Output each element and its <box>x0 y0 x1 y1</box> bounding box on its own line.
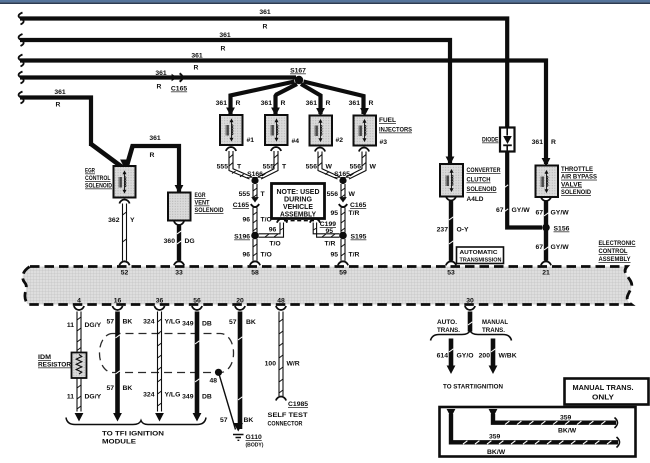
svg-text:IDM: IDM <box>38 354 51 361</box>
svg-text:4: 4 <box>77 298 81 305</box>
IDM resistor box <box>72 353 87 379</box>
svg-text:GY/O: GY/O <box>457 353 474 360</box>
wire 556-W injector2 to S165 <box>318 152 340 180</box>
svg-text:361: 361 <box>261 100 273 107</box>
svg-text:361: 361 <box>219 32 231 39</box>
svg-text:349: 349 <box>182 321 194 328</box>
svg-text:G110: G110 <box>246 434 262 441</box>
svg-text:R: R <box>326 100 331 107</box>
svg-text:S167: S167 <box>290 68 306 75</box>
svg-text:O-Y: O-Y <box>457 227 470 234</box>
svg-text:ONLY: ONLY <box>592 393 614 402</box>
wire 237-O/Y to bus pin 53 <box>449 201 453 261</box>
svg-text:DG/Y: DG/Y <box>85 394 102 401</box>
svg-text:SOLENOID: SOLENOID <box>195 207 224 214</box>
wire 362-Y to bus pin 52 <box>123 204 127 261</box>
svg-text:95: 95 <box>330 210 338 217</box>
svg-text:TRANSMISSION: TRANSMISSION <box>460 258 502 264</box>
fuel injector #4 box <box>265 115 288 145</box>
wire 11-DG/Y pin4 to IDM resistor <box>77 312 81 353</box>
svg-text:556: 556 <box>350 164 362 171</box>
svg-text:AUTO.: AUTO. <box>437 319 457 326</box>
wire break left end 3 <box>19 55 24 67</box>
svg-text:SOLENOID: SOLENOID <box>85 183 112 190</box>
connector flare under injector 1 <box>226 147 236 151</box>
arrow into EGR vent solenoid <box>175 185 184 194</box>
svg-text:RESISTOR: RESISTOR <box>38 362 71 369</box>
svg-text:EGR: EGR <box>195 192 206 199</box>
connector C165 on wire4 <box>172 73 183 81</box>
wire 361-R top feed 2 (to converter clutch solenoid) <box>20 40 450 163</box>
arrow end pin16 wire <box>113 413 122 422</box>
break end 359 lower <box>617 437 620 448</box>
svg-text:556: 556 <box>306 164 318 171</box>
svg-text:48: 48 <box>209 378 217 385</box>
splice S196 <box>251 232 259 240</box>
svg-text:R: R <box>281 100 286 107</box>
svg-text:GY/W: GY/W <box>512 207 531 214</box>
wire 57-BK pin16 to TFI <box>115 312 120 414</box>
svg-text:(BODY): (BODY) <box>246 443 264 449</box>
wire 361-R top feed 3 (to throttle air bypass solenoid) <box>20 61 546 165</box>
pin 33 connector <box>174 261 184 265</box>
svg-text:349: 349 <box>182 394 194 401</box>
svg-text:R: R <box>194 65 199 72</box>
svg-text:INJECTORS: INJECTORS <box>379 127 412 134</box>
svg-text:359: 359 <box>489 434 501 441</box>
wire 67-GY/W diode to S156 <box>507 152 542 228</box>
wire 96-T/O C165 to S196 <box>253 208 257 233</box>
fan wire S167 to injector 3 <box>304 82 364 115</box>
pin 20 connector <box>235 306 245 310</box>
svg-text:MANUAL: MANUAL <box>482 319 508 326</box>
arrow into injector 2 <box>316 108 325 117</box>
svg-text:359: 359 <box>560 415 572 422</box>
svg-text:AUTOMATIC: AUTOMATIC <box>460 250 498 256</box>
svg-text:C165: C165 <box>350 202 366 209</box>
svg-text:W: W <box>349 191 356 198</box>
svg-text:CONVERTER: CONVERTER <box>467 167 501 174</box>
svg-text:VALVE: VALVE <box>561 181 582 188</box>
splice S166 <box>251 177 258 184</box>
arrow end pin56 wire <box>193 413 202 422</box>
svg-text:SOLENOID: SOLENOID <box>561 189 591 196</box>
splice S167 <box>295 76 303 84</box>
svg-text:R: R <box>221 46 226 53</box>
svg-text:A4LD: A4LD <box>467 196 484 203</box>
connector flare under converter clutch <box>446 197 456 201</box>
svg-text:96: 96 <box>242 217 250 224</box>
NOTE box <box>272 184 325 219</box>
svg-text:W: W <box>370 164 377 171</box>
wire 324-Y/LG pin36 to TFI <box>158 312 162 412</box>
svg-text:R: R <box>263 24 268 31</box>
svg-text:33: 33 <box>175 270 183 277</box>
svg-text:96: 96 <box>269 227 277 234</box>
pin 30 connector <box>465 306 475 310</box>
pin 56 connector <box>192 306 202 310</box>
wire 95-T/R C165 to S195 <box>341 208 345 233</box>
svg-text:96: 96 <box>242 252 250 259</box>
svg-text:DURING: DURING <box>284 197 313 204</box>
wire break left end 5 <box>19 92 24 104</box>
wire break left end 1 <box>19 13 24 25</box>
svg-text:CLUTCH: CLUTCH <box>467 177 491 184</box>
wire pin30 stub <box>468 312 473 332</box>
fan wire S167 to injector 4 <box>276 84 298 114</box>
svg-text:555: 555 <box>239 191 251 198</box>
svg-text:CONNECTOR: CONNECTOR <box>268 421 303 428</box>
svg-text:TRANS.: TRANS. <box>437 327 460 334</box>
svg-text:S165: S165 <box>334 171 350 178</box>
drain wire 48 to ground <box>219 372 236 429</box>
svg-text:361: 361 <box>54 89 66 96</box>
svg-text:BK: BK <box>123 319 133 326</box>
fuel injector #2 box <box>310 116 333 146</box>
wire 95-T/R S195 to bus pin 59 <box>341 239 345 261</box>
wire break left end 4 <box>19 72 24 84</box>
svg-text:C165: C165 <box>171 86 187 93</box>
arrow into injector 1 <box>226 108 235 117</box>
arrow into converter clutch solenoid <box>446 157 455 166</box>
wire 96-T/O S196 to bus pin 58 <box>253 239 257 261</box>
fan wire S167 to injector 2 <box>301 84 321 114</box>
svg-text:361: 361 <box>216 100 228 107</box>
svg-text:EGR: EGR <box>85 168 95 175</box>
svg-text:THROTTLE: THROTTLE <box>561 166 593 173</box>
TFI brace <box>66 418 206 425</box>
svg-text:361: 361 <box>259 9 271 16</box>
wire 556-W S165 to C165 right <box>341 184 345 200</box>
svg-text:DB: DB <box>202 321 212 328</box>
svg-text:52: 52 <box>121 270 129 277</box>
wire 556-W injector3 to S165 <box>346 152 366 180</box>
svg-text:CONTROL: CONTROL <box>85 175 111 182</box>
svg-text:W: W <box>326 164 333 171</box>
svg-text:67: 67 <box>496 207 504 214</box>
wire 11-DG/Y resistor to TFI <box>77 378 81 412</box>
splice S195 <box>339 232 347 240</box>
svg-text:59: 59 <box>339 270 347 277</box>
svg-text:361: 361 <box>149 135 161 142</box>
note box pin flare left <box>277 219 287 223</box>
svg-text:C1985: C1985 <box>288 401 308 408</box>
svg-text:R: R <box>369 100 374 107</box>
svg-text:T/R: T/R <box>349 210 360 217</box>
wire 361-R top feed 4 (to S167 injector feed) <box>20 75 296 79</box>
throttle air bypass valve solenoid box <box>536 166 559 198</box>
svg-text:11: 11 <box>67 394 74 401</box>
svg-text:614: 614 <box>437 353 449 360</box>
arrow into injector 3 <box>360 108 369 117</box>
svg-text:#2: #2 <box>336 137 344 144</box>
fan wire S167 to injector 1 <box>231 82 295 115</box>
pin 16 connector <box>112 306 122 310</box>
connector flare under EGR control solenoid <box>119 200 129 204</box>
svg-text:95: 95 <box>330 252 338 259</box>
arrow start 359 upper wire <box>489 409 498 418</box>
bus band dashed border <box>23 267 632 305</box>
svg-text:R: R <box>157 84 162 91</box>
fuel injector #3 box <box>354 116 377 146</box>
harness loop (stadium) <box>100 334 234 373</box>
svg-text:11: 11 <box>67 322 74 329</box>
svg-text:#1: #1 <box>247 137 255 144</box>
pin 36 connector <box>154 306 164 310</box>
svg-text:53: 53 <box>447 270 455 277</box>
svg-text:ELECTRONIC: ELECTRONIC <box>599 240 636 247</box>
svg-text:67: 67 <box>535 210 543 217</box>
svg-text:T/R: T/R <box>325 241 336 248</box>
wire 359-BK/W lower <box>451 414 618 442</box>
svg-text:TRANS.: TRANS. <box>482 327 505 334</box>
wire 96 branch S196 to note box pin <box>259 223 284 238</box>
arrow end pin4 wire <box>75 413 84 422</box>
svg-text:BK: BK <box>123 385 133 392</box>
svg-text:VENT: VENT <box>195 200 211 207</box>
pin 21 connector <box>541 261 551 265</box>
bus band fill <box>23 267 632 305</box>
pin 48 connector <box>276 306 286 310</box>
svg-text:Y/LG: Y/LG <box>165 319 181 326</box>
AUTOMATIC TRANSMISSION box <box>457 247 504 264</box>
svg-text:100: 100 <box>265 361 277 368</box>
EGR control solenoid box <box>114 166 136 198</box>
svg-text:237: 237 <box>437 227 449 234</box>
svg-text:BK/W: BK/W <box>558 428 577 435</box>
svg-text:361: 361 <box>306 100 318 107</box>
svg-text:#4: #4 <box>292 138 300 145</box>
break end 359 upper <box>615 418 618 429</box>
wire 361-R top feed 5 (to EGR solenoids) <box>20 98 91 147</box>
arrow into throttle air bypass solenoid <box>542 158 551 167</box>
svg-text:W/R: W/R <box>287 361 300 368</box>
pin 4 connector <box>74 306 84 310</box>
wire 360-DG to bus pin 33 <box>177 225 181 261</box>
svg-text:361: 361 <box>532 139 544 146</box>
wire 555-T injector1 to S166 <box>229 151 252 179</box>
svg-text:S156: S156 <box>554 226 570 233</box>
svg-text:58: 58 <box>251 270 259 277</box>
pin 58 connector <box>250 261 260 265</box>
wire 100-W/R pin48 to self test connector <box>279 312 283 397</box>
svg-text:361: 361 <box>155 70 167 77</box>
wire 57-BK pin20 to G110 <box>238 312 243 430</box>
wire 67-GY/W throttle to bus pin 21 <box>544 201 548 261</box>
svg-text:BK: BK <box>244 417 254 424</box>
svg-text:C165: C165 <box>233 202 249 209</box>
converter clutch solenoid box <box>440 164 463 197</box>
svg-text:555: 555 <box>217 164 229 171</box>
connector flare under throttle solenoid <box>541 197 551 201</box>
svg-text:R: R <box>56 102 61 109</box>
split brace under pin 30 <box>431 331 512 341</box>
svg-text:ASSEMBLY: ASSEMBLY <box>280 212 316 219</box>
MANUAL TRANS. ONLY label box <box>565 379 649 405</box>
svg-text:67: 67 <box>535 244 543 251</box>
svg-text:T/O: T/O <box>261 252 272 259</box>
svg-text:362: 362 <box>108 217 120 224</box>
browser top bar <box>0 0 650 2</box>
fuel injector #1 box <box>220 115 243 145</box>
svg-text:36: 36 <box>156 298 164 305</box>
svg-text:57: 57 <box>106 385 114 392</box>
svg-text:SOLENOID: SOLENOID <box>467 186 497 193</box>
arrow start 359 lower wire <box>447 409 456 418</box>
svg-text:556: 556 <box>327 191 339 198</box>
svg-text:16: 16 <box>114 298 122 305</box>
dashed line under note box <box>284 220 314 222</box>
svg-text:MODULE: MODULE <box>102 439 137 446</box>
wire break left end 2 <box>19 34 24 46</box>
svg-text:T/R: T/R <box>349 252 360 259</box>
self test connector end flare <box>276 397 286 401</box>
svg-text:21: 21 <box>542 270 550 277</box>
svg-text:48: 48 <box>277 298 285 305</box>
connector C165 left branch <box>251 197 259 207</box>
svg-text:ASSEMBLY: ASSEMBLY <box>599 256 631 263</box>
svg-text:SELF TEST: SELF TEST <box>268 412 309 419</box>
splice S156 <box>542 224 550 232</box>
svg-text:R: R <box>236 100 241 107</box>
wire 359-BK/W upper <box>493 414 616 423</box>
svg-text:57: 57 <box>220 417 228 424</box>
svg-text:TO START/IGNITION: TO START/IGNITION <box>443 384 503 391</box>
svg-text:S195: S195 <box>351 234 367 241</box>
wire 555-T injector4 to S166 <box>258 151 278 179</box>
svg-text:W/BK: W/BK <box>499 353 517 360</box>
svg-text:DG: DG <box>185 238 195 245</box>
svg-text:#3: #3 <box>380 139 388 146</box>
connector C165 right branch <box>339 197 347 207</box>
svg-text:GY/W: GY/W <box>551 210 570 217</box>
svg-text:361: 361 <box>191 53 203 60</box>
arrow into injector 4 <box>271 108 280 117</box>
arrow into EGR control solenoid <box>120 160 129 169</box>
svg-text:VEHICLE: VEHICLE <box>283 204 313 211</box>
manual trans only outline box <box>440 407 636 457</box>
svg-text:20: 20 <box>236 298 244 305</box>
svg-text:57: 57 <box>229 319 237 326</box>
svg-text:MANUAL TRANS.: MANUAL TRANS. <box>573 383 634 392</box>
svg-text:Y: Y <box>130 217 135 224</box>
svg-text:30: 30 <box>466 298 474 305</box>
wire 614-GY/O auto trans arrow <box>449 339 454 367</box>
svg-text:324: 324 <box>143 319 155 326</box>
svg-text:NOTE: USED: NOTE: USED <box>277 189 320 196</box>
svg-text:200: 200 <box>479 353 491 360</box>
svg-text:BK: BK <box>246 319 256 326</box>
svg-text:DB: DB <box>202 394 212 401</box>
svg-text:TO TFI IGNITION: TO TFI IGNITION <box>102 431 164 438</box>
svg-text:361: 361 <box>349 100 361 107</box>
pin 59 connector <box>338 261 348 265</box>
svg-text:GY/W: GY/W <box>551 244 570 251</box>
svg-text:S196: S196 <box>234 234 250 241</box>
connector flare under EGR vent solenoid <box>174 221 184 225</box>
wire 361-R horizontal to EGR vent <box>131 146 179 192</box>
wire V left arm to EGR control solenoid <box>91 144 122 167</box>
svg-text:AIR BYPASS: AIR BYPASS <box>561 174 597 181</box>
svg-text:DG/Y: DG/Y <box>85 322 102 329</box>
svg-text:Y/LG: Y/LG <box>165 392 181 399</box>
arrow end pin36 wire <box>155 413 164 422</box>
wire V right arm from vent feed <box>127 145 134 168</box>
EGR vent solenoid box <box>168 193 191 221</box>
connector flare under injector 3 <box>359 148 369 152</box>
wire 200-W/BK manual trans arrow <box>491 339 496 367</box>
svg-text:360: 360 <box>164 238 176 245</box>
svg-text:FUEL: FUEL <box>379 117 396 124</box>
wire 555-T S166 to C165 <box>253 184 257 200</box>
svg-text:T/O: T/O <box>269 241 280 248</box>
note box pin flare right <box>310 219 320 223</box>
junction 48 on harness loop <box>215 369 222 376</box>
ground G110 <box>233 423 244 440</box>
svg-text:CONTROL: CONTROL <box>599 248 628 255</box>
diode box <box>500 128 515 152</box>
svg-text:S166: S166 <box>247 171 263 178</box>
connector flare under injector 4 <box>271 147 281 151</box>
wire 349-DB pin56 to TFI <box>195 312 200 414</box>
wire 95 branch note box pin to S195 <box>313 223 339 238</box>
splice S165 <box>339 177 346 184</box>
svg-text:R: R <box>551 139 556 146</box>
connector flare under injector 2 <box>315 148 325 152</box>
svg-text:DIODE: DIODE <box>482 137 499 144</box>
svg-text:R: R <box>150 152 155 159</box>
svg-text:324: 324 <box>143 392 155 399</box>
svg-text:555: 555 <box>263 164 275 171</box>
pin 52 connector <box>119 261 129 265</box>
svg-text:57: 57 <box>106 319 114 326</box>
wire 361-R top feed 1 (to diode) <box>20 19 507 128</box>
pin 53 connector <box>446 261 456 265</box>
svg-text:56: 56 <box>193 298 201 305</box>
svg-text:BK/W: BK/W <box>487 449 506 456</box>
